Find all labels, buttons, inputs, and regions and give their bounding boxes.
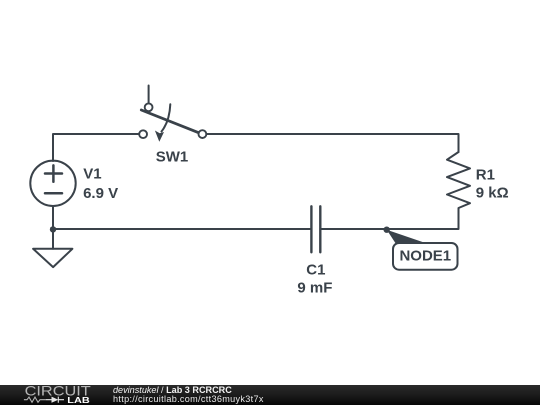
- svg-text:V1: V1: [83, 166, 101, 183]
- svg-text:NODE1: NODE1: [399, 248, 451, 265]
- svg-text:9 kΩ: 9 kΩ: [476, 185, 509, 202]
- svg-text:R1: R1: [476, 167, 495, 184]
- svg-text:9 mF: 9 mF: [297, 279, 332, 296]
- svg-text:SW1: SW1: [156, 148, 189, 165]
- svg-text:C1: C1: [306, 262, 325, 279]
- svg-text:LAB: LAB: [67, 396, 90, 405]
- svg-text:6.9 V: 6.9 V: [83, 185, 118, 202]
